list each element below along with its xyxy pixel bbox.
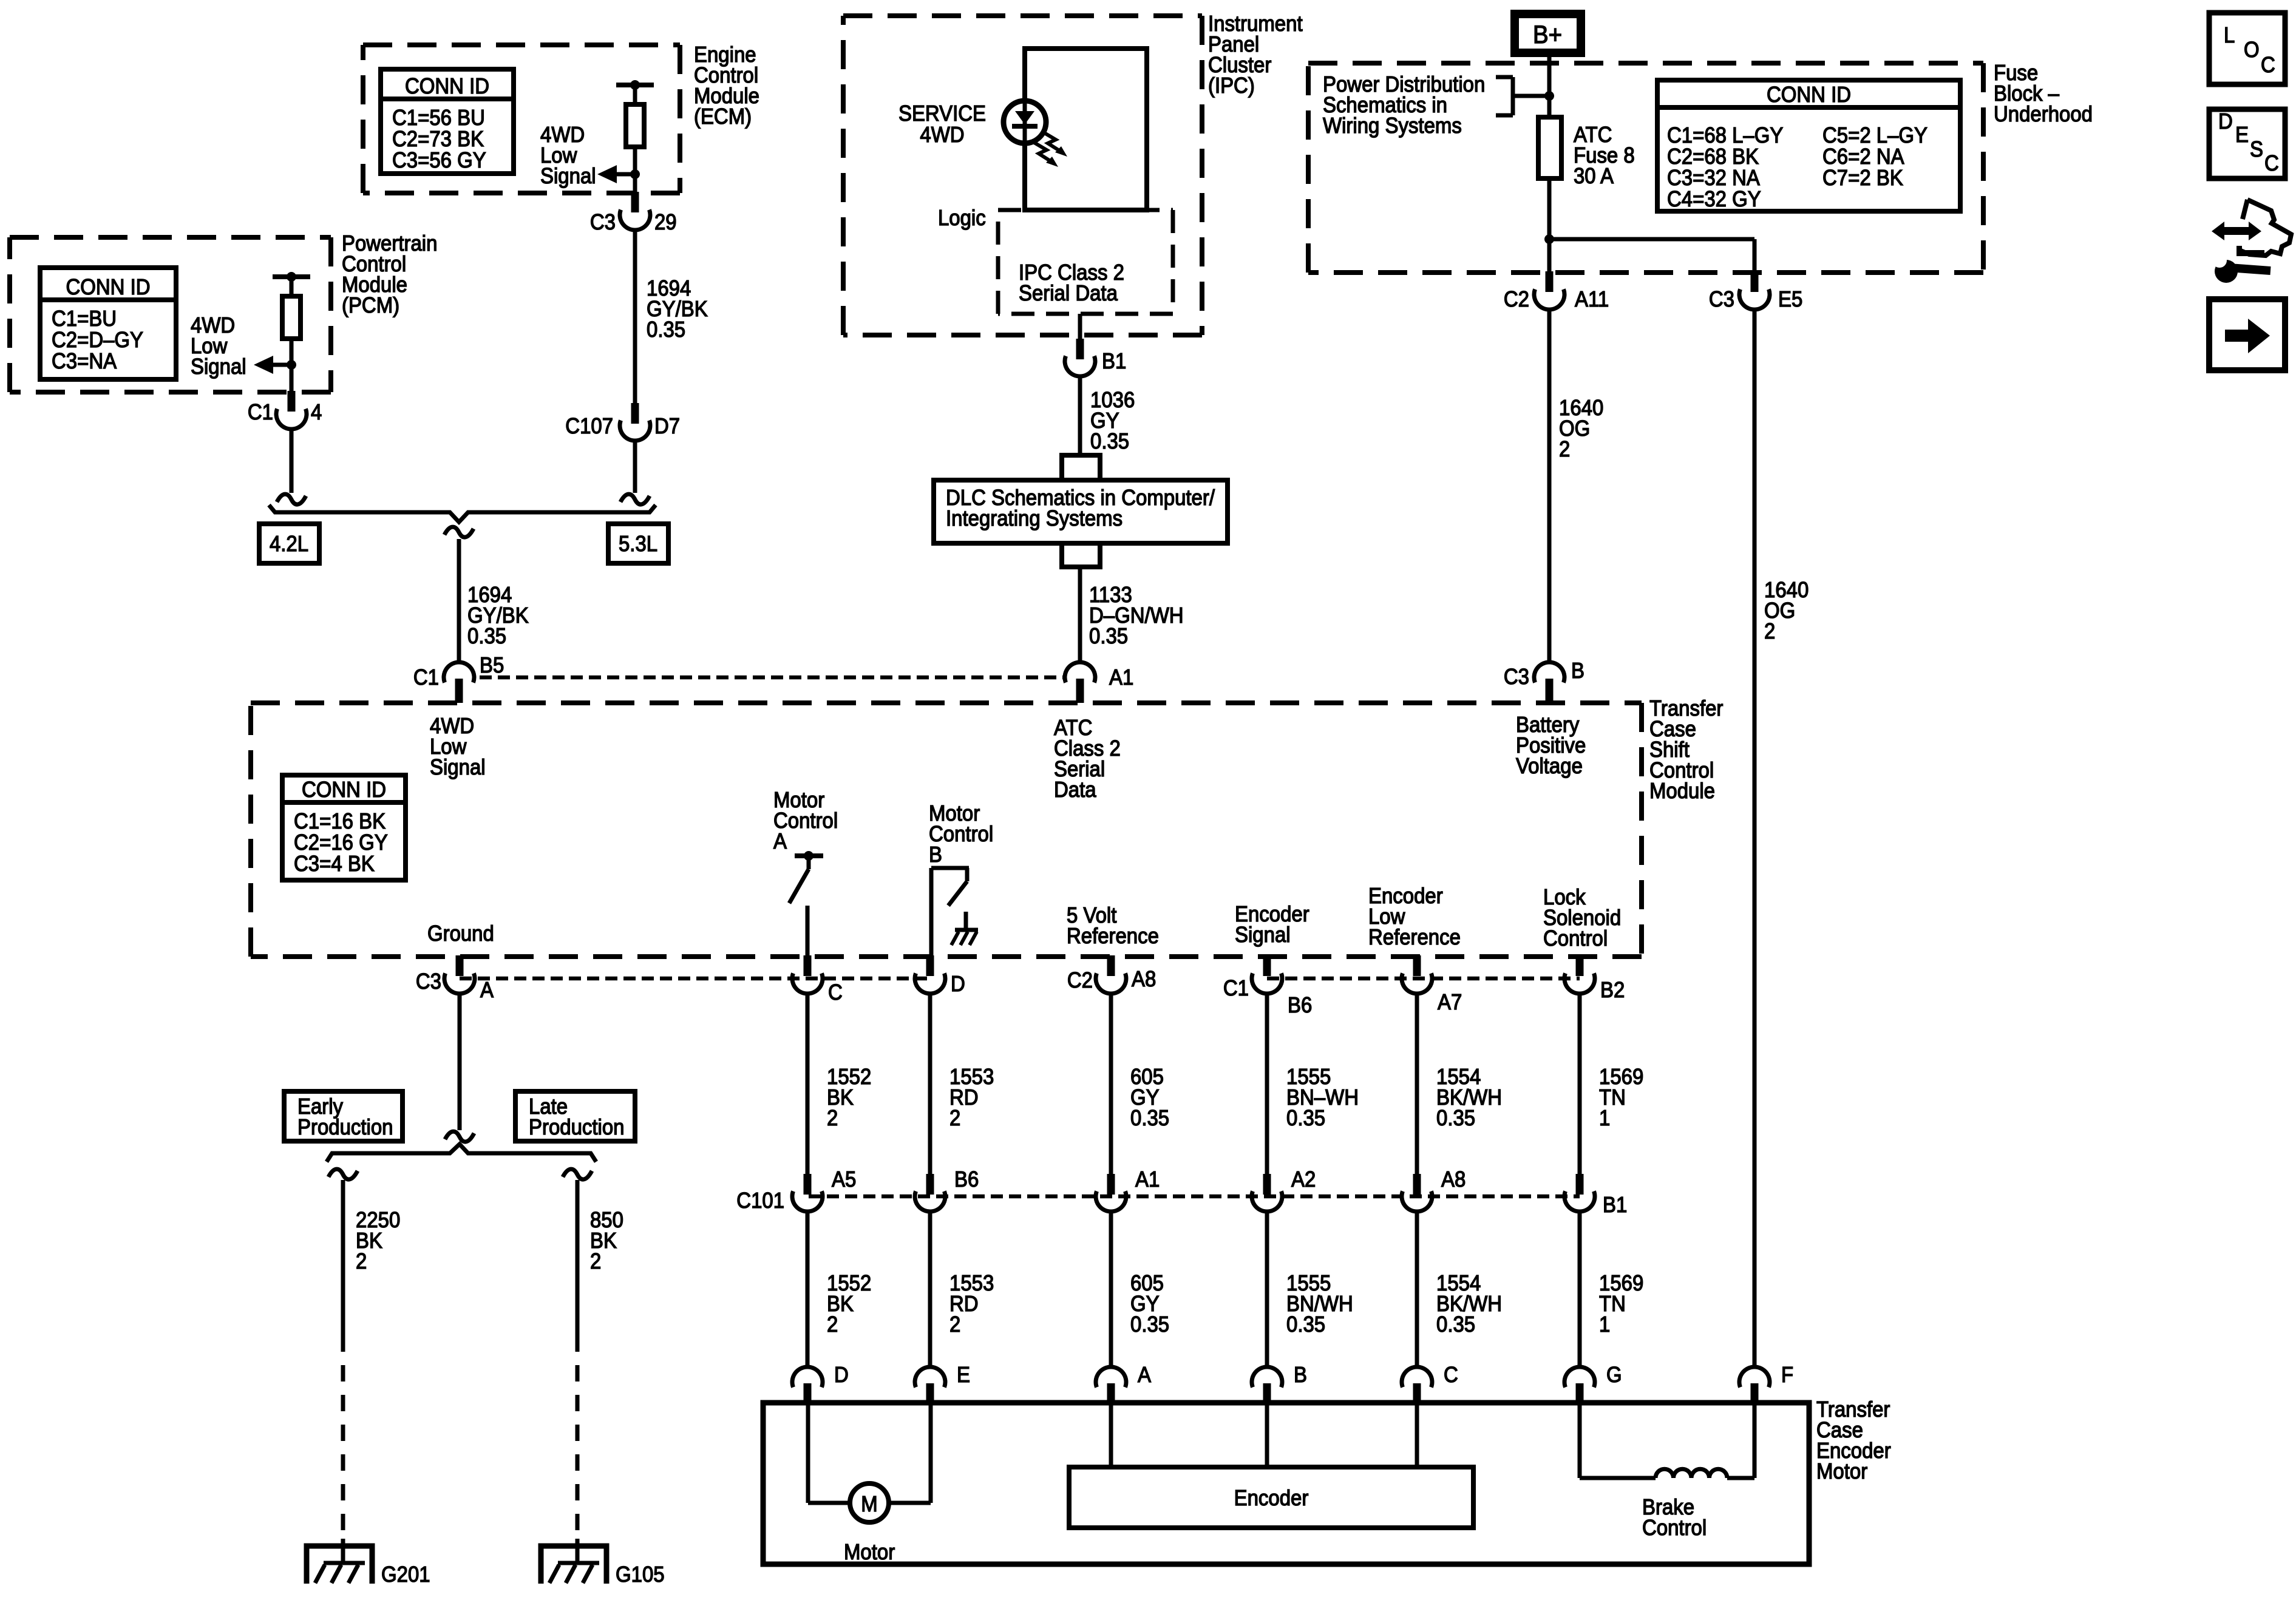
label wire 1133 D-GN/WH 0.35 (1089, 582, 1184, 648)
chassis ground (Motor Control B) (951, 930, 978, 945)
label Motor (844, 1539, 895, 1564)
arrow 4WD Low Signal (PCM) (254, 356, 296, 374)
label wire 1569 TN 1 upper (1599, 1064, 1643, 1130)
svg-text:C3=4 BK: C3=4 BK (294, 851, 375, 876)
brace split Early/Late (327, 1144, 596, 1162)
wire 1569 lower (1578, 1211, 1582, 1367)
svg-text:Integrating Systems: Integrating Systems (946, 506, 1123, 531)
switch Motor Control A (789, 851, 823, 957)
label wire 1640 OG 2 (E5) (1764, 577, 1809, 643)
wire 1640 A11 to B (1547, 309, 1552, 662)
svg-text:Logic: Logic (938, 205, 986, 230)
node Power Distribution tap (1496, 77, 1554, 115)
label wire 850 BK 2 (590, 1207, 623, 1273)
svg-text:C7=2 BK: C7=2 BK (1822, 165, 1903, 190)
connector C101 pin A1 (1096, 1167, 1160, 1212)
wire 1554 lower (1415, 1211, 1419, 1367)
label Brake Control (1642, 1494, 1707, 1540)
wire 2250 solid (328, 1169, 358, 1335)
icon DESC box (2209, 109, 2285, 178)
wire B+ to fuse (1547, 55, 1552, 118)
svg-text:C3=56 GY: C3=56 GY (392, 147, 486, 172)
connector pin A1 (1065, 662, 1133, 703)
svg-text:C1: C1 (413, 665, 439, 690)
fuse ATC Fuse 8 30A (1538, 117, 1561, 178)
switch Motor Control B (931, 868, 969, 957)
svg-text:B: B (1294, 1362, 1307, 1387)
box Late Production (515, 1091, 635, 1141)
svg-text:2: 2 (827, 1105, 838, 1130)
label Logic (938, 205, 986, 230)
svg-text:Production: Production (529, 1114, 625, 1139)
svg-text:2: 2 (590, 1249, 601, 1273)
connector pin E (encoder motor) (915, 1362, 970, 1403)
svg-text:Underhood: Underhood (1994, 101, 2093, 126)
svg-text:4: 4 (311, 399, 322, 424)
svg-text:C: C (2264, 151, 2279, 175)
label wire 1694 GY/BK 0.35 lower (467, 582, 529, 648)
connector pin C (792, 955, 843, 1005)
svg-text:A5: A5 (832, 1167, 856, 1192)
svg-text:4.2L: 4.2L (270, 531, 308, 556)
svg-text:Wiring Systems: Wiring Systems (1323, 113, 1462, 138)
svg-text:0.35: 0.35 (1089, 623, 1128, 648)
svg-text:Data: Data (1054, 777, 1096, 802)
table CONN ID (TCSCM) (282, 775, 406, 880)
power node B+ (1515, 14, 1581, 53)
svg-text:Control: Control (1543, 926, 1608, 951)
svg-text:B6: B6 (1288, 992, 1312, 1017)
svg-text:0.35: 0.35 (1436, 1105, 1475, 1130)
svg-text:C2: C2 (1067, 968, 1093, 992)
svg-text:A7: A7 (1438, 989, 1462, 1014)
box IPC lamp circuit (1025, 49, 1147, 210)
wire 1555 upper (1265, 993, 1269, 1174)
label wire 1036 GY 0.35 (1090, 387, 1135, 453)
svg-text:1: 1 (1599, 1105, 1610, 1130)
wire C1-4 down (277, 429, 306, 504)
svg-text:D: D (951, 971, 965, 996)
svg-text:O: O (2244, 37, 2260, 62)
connector C101 pin A5 (792, 1167, 856, 1212)
svg-text:CONN ID: CONN ID (302, 777, 386, 802)
label Lock Solenoid Control (1543, 884, 1621, 951)
connector C1 pin B5 (413, 653, 504, 703)
table CONN ID (PCM) (40, 268, 176, 379)
label wire 1694 GY/BK 0.35 upper (647, 276, 708, 342)
connector C107 pin D7 (565, 403, 680, 441)
svg-text:B: B (929, 842, 942, 867)
svg-text:C3: C3 (590, 209, 616, 234)
svg-text:C3: C3 (416, 969, 441, 994)
wire branch to E5 (1549, 239, 1754, 273)
wire motor branch E (889, 1403, 931, 1503)
svg-text:2: 2 (827, 1312, 838, 1337)
wire encoder A (1109, 1403, 1113, 1467)
wire 1553 lower (928, 1211, 932, 1367)
wire 1553 upper (928, 993, 932, 1174)
connector pin B2 (1564, 955, 1625, 1002)
svg-text:Signal: Signal (1235, 922, 1291, 947)
arrow 4WD Low Signal (ECM) (597, 165, 640, 183)
svg-text:0.35: 0.35 (1436, 1312, 1475, 1337)
svg-text:M: M (861, 1491, 877, 1516)
label Motor Control A (773, 787, 838, 853)
label 5 Volt Reference (1067, 903, 1159, 948)
label 4WD Low Signal (TCSCM) (430, 713, 486, 779)
svg-text:A8: A8 (1441, 1167, 1466, 1192)
module box Powertrain Control Module (PCM) (10, 237, 331, 392)
svg-text:B6: B6 (954, 1167, 979, 1192)
connector pin C (encoder motor) (1402, 1362, 1458, 1403)
label wire 1555 BN–WH 0.35 upper (1286, 1064, 1359, 1130)
svg-text:E: E (957, 1362, 970, 1387)
wire brake right (1727, 1403, 1754, 1478)
label wire 1553 RD 2 lower (949, 1270, 994, 1337)
label Encoder Signal (1235, 901, 1309, 947)
wire brake left (1580, 1403, 1656, 1478)
table CONN ID (fuse block) (1657, 80, 1960, 211)
connector pin A (encoder motor) (1096, 1362, 1151, 1403)
wire 605 lower (1109, 1211, 1113, 1367)
connector B1 (IPC) (1065, 339, 1126, 376)
junction dot fuse branch (1544, 234, 1554, 244)
bus dashed TCSCM bottom row right (1267, 977, 1580, 981)
crimp out of DLC box (1062, 543, 1100, 567)
svg-text:B5: B5 (480, 653, 504, 677)
connector C1 pin B6 (1223, 955, 1312, 1017)
label wire 1553 RD 2 upper (949, 1064, 994, 1130)
svg-text:0.35: 0.35 (1130, 1105, 1169, 1130)
svg-text:A11: A11 (1575, 286, 1609, 311)
svg-text:C3=NA: C3=NA (52, 348, 117, 373)
label wire 1554 BK/WH 0.35 upper (1436, 1064, 1502, 1130)
label ATC Class 2 Serial Data (1054, 715, 1121, 802)
wire 1552 upper (806, 993, 810, 1174)
svg-text:Serial Data: Serial Data (1019, 280, 1118, 305)
label Power Distribution Schematics (1323, 72, 1485, 138)
icon arrow box (2209, 299, 2285, 370)
connector C3 pin E5 (1709, 271, 1802, 311)
connector C101 pin B6 (915, 1167, 979, 1212)
label wire 1552 BK 2 upper (827, 1064, 871, 1130)
label wire 1569 TN 1 lower (1599, 1270, 1643, 1337)
LED indicator SERVICE 4WD (1004, 101, 1046, 143)
svg-text:Signal: Signal (430, 754, 486, 779)
svg-text:F: F (1781, 1362, 1793, 1387)
wire ground from pin A (445, 993, 474, 1142)
svg-text:0.35: 0.35 (467, 623, 506, 648)
connector pin D (encoder motor) (792, 1362, 849, 1403)
connector C2 pin A8 (1067, 955, 1156, 994)
svg-text:C1: C1 (1223, 975, 1249, 1000)
svg-text:2: 2 (949, 1105, 960, 1130)
label wire 2250 BK 2 (356, 1207, 400, 1273)
svg-text:0.35: 0.35 (1130, 1312, 1169, 1337)
svg-text:A1: A1 (1135, 1167, 1160, 1192)
svg-text:Encoder: Encoder (1234, 1485, 1309, 1510)
label 4WD Low Signal (PCM) (191, 313, 246, 379)
svg-text:A8: A8 (1132, 966, 1156, 991)
svg-text:CONN ID: CONN ID (66, 274, 150, 299)
connector C3 pin A (ground) (416, 955, 494, 1002)
wire 2250 dashed (341, 1335, 345, 1542)
wire PCM resistor to edge (290, 339, 294, 391)
wire 1640 E5 to F (1753, 309, 1757, 1367)
wire 605 upper (1109, 993, 1113, 1174)
svg-text:2: 2 (949, 1312, 960, 1337)
connector pin D (915, 955, 965, 996)
bus dashed B5 to A1 (480, 676, 1064, 680)
motor M (850, 1483, 889, 1522)
label wire 1640 OG 2 (A11) (1559, 395, 1603, 461)
svg-text:(PCM): (PCM) (342, 293, 399, 317)
label wire 605 GY 0.35 upper (1130, 1064, 1169, 1130)
wire encoder C (1415, 1403, 1419, 1467)
box DLC Schematics (934, 480, 1228, 543)
wire 1552 lower (806, 1211, 810, 1367)
bus dashed TCSCM bottom row left (460, 977, 930, 981)
svg-text:B1: B1 (1102, 348, 1126, 373)
icon vehicle hood outline (2237, 200, 2291, 256)
label Ground (427, 921, 494, 946)
svg-text:Module: Module (1649, 778, 1715, 803)
svg-text:Reference: Reference (1368, 924, 1461, 949)
wire below C107 (620, 440, 650, 504)
svg-text:0.35: 0.35 (1286, 1105, 1325, 1130)
module box Engine Control Module (ECM) (363, 45, 680, 193)
crimp into DLC box (1062, 455, 1100, 480)
svg-text:C: C (2261, 52, 2275, 77)
svg-text:E5: E5 (1778, 286, 1802, 311)
svg-text:Voltage: Voltage (1516, 753, 1583, 778)
connector pin B (encoder motor) (1252, 1362, 1307, 1403)
svg-text:C: C (1444, 1362, 1458, 1387)
svg-text:E: E (2235, 122, 2249, 147)
wire 1569 upper (1578, 993, 1582, 1174)
wire ECM resistor to edge (633, 147, 637, 192)
connector C1 pin 4 (PCM) (248, 391, 322, 429)
svg-text:C1: C1 (248, 399, 273, 424)
svg-text:C3: C3 (1709, 286, 1734, 311)
svg-text:5.3L: 5.3L (619, 531, 657, 556)
label Encoder Low Reference (1368, 883, 1461, 949)
svg-text:2: 2 (1764, 619, 1775, 643)
table CONN ID (ECM) (381, 69, 514, 174)
wire fuse to edge (1547, 178, 1552, 273)
connector pin F (encoder motor) (1739, 1362, 1793, 1403)
icon double arrow (2212, 222, 2261, 240)
svg-text:(IPC): (IPC) (1208, 73, 1255, 98)
label C101 (736, 1188, 784, 1213)
wire IPC to B1 (1078, 314, 1082, 340)
module box Transfer Case Encoder Motor (763, 1403, 1809, 1564)
box Encoder (1069, 1467, 1473, 1528)
svg-text:B+: B+ (1533, 20, 1562, 49)
connector C3 pin B (1504, 658, 1584, 703)
svg-text:D7: D7 (654, 413, 680, 438)
brace merge 4.2L/5.3L (269, 505, 656, 537)
LED light rays (1033, 132, 1067, 167)
svg-text:A: A (773, 829, 787, 853)
svg-text:G: G (1606, 1362, 1622, 1387)
module box Instrument Panel Cluster (IPC) (843, 16, 1202, 335)
label Battery Positive Voltage (1516, 712, 1586, 778)
connector C2 pin A11 (1504, 271, 1609, 311)
svg-text:C2: C2 (1504, 286, 1529, 311)
svg-text:1: 1 (1599, 1312, 1610, 1337)
svg-text:4WD: 4WD (920, 122, 964, 147)
label wire 1555 BN/WH 0.35 lower (1286, 1270, 1353, 1337)
connector C101 pin A2 (1252, 1167, 1316, 1212)
svg-text:D: D (834, 1362, 849, 1387)
svg-text:(ECM): (ECM) (694, 104, 752, 129)
label PCM name (342, 231, 437, 317)
svg-text:C4=32 GY: C4=32 GY (1667, 186, 1761, 211)
svg-text:Signal: Signal (540, 163, 596, 188)
connector C3 pin 29 (ECM) (590, 192, 677, 234)
label Transfer Case Encoder Motor (1816, 1397, 1891, 1483)
svg-text:Motor: Motor (844, 1539, 895, 1564)
label Motor Control B (929, 801, 993, 867)
bus dashed C101 row (809, 1195, 1580, 1199)
wire 1133 (1078, 567, 1082, 662)
label TCSCM name (1649, 696, 1723, 803)
connector C101 pin B1 (1564, 1174, 1627, 1217)
wire 1694 lower (457, 539, 461, 662)
box IPC Class 2 Serial Data (998, 210, 1173, 314)
svg-text:Control: Control (1642, 1515, 1707, 1540)
resistor R-ECM pull-up (616, 80, 654, 147)
connector C101 pin A8 (1402, 1167, 1466, 1212)
icon LOC box (2209, 13, 2285, 84)
module box Transfer Case Shift Control Module (251, 703, 1642, 957)
label Fuse Block name (1994, 60, 2093, 126)
svg-text:C107: C107 (565, 413, 613, 438)
wire encoder B (1265, 1403, 1269, 1467)
svg-text:C3: C3 (1504, 664, 1529, 689)
label wire 605 GY 0.35 lower (1130, 1270, 1169, 1337)
svg-text:30 A: 30 A (1574, 163, 1614, 188)
svg-text:L: L (2224, 22, 2235, 47)
svg-text:B2: B2 (1600, 977, 1625, 1002)
inductor Brake Control (1656, 1469, 1727, 1478)
svg-text:29: 29 (654, 209, 677, 234)
svg-text:G105: G105 (616, 1562, 665, 1587)
resistor R-PCM pull-up (273, 272, 310, 339)
svg-text:Ground: Ground (427, 921, 494, 946)
ground G201 (307, 1539, 430, 1587)
box Early Production (284, 1091, 402, 1141)
svg-text:Signal: Signal (191, 354, 246, 379)
svg-text:Reference: Reference (1067, 923, 1159, 948)
label 4WD Low Signal (ECM) (540, 122, 596, 188)
label ATC Fuse 8 30 A (1574, 122, 1635, 188)
label wire 1552 BK 2 lower (827, 1270, 871, 1337)
svg-text:CONN ID: CONN ID (405, 73, 489, 98)
svg-text:A1: A1 (1109, 665, 1133, 690)
svg-text:B1: B1 (1603, 1192, 1627, 1217)
wire 1036 (1078, 376, 1082, 454)
svg-text:C: C (828, 980, 843, 1005)
ground G105 (541, 1539, 665, 1587)
box 4.2L (259, 524, 319, 563)
svg-text:A2: A2 (1291, 1167, 1316, 1192)
module box Fuse Block - Underhood (1308, 63, 1983, 273)
wire 1555 lower (1265, 1211, 1269, 1367)
svg-text:B: B (1571, 658, 1584, 683)
svg-text:Motor: Motor (1816, 1459, 1867, 1483)
label wire 1554 BK/WH 0.35 lower (1436, 1270, 1502, 1337)
label IPC name (1208, 11, 1303, 98)
svg-text:C101: C101 (736, 1188, 784, 1213)
icon wrench (2212, 253, 2271, 283)
box 5.3L (608, 524, 668, 563)
svg-text:S: S (2250, 137, 2263, 161)
svg-text:Production: Production (297, 1114, 393, 1139)
wire 1694 upper (633, 229, 637, 403)
svg-text:0.35: 0.35 (647, 317, 685, 342)
svg-text:0.35: 0.35 (1286, 1312, 1325, 1337)
svg-text:D: D (2218, 109, 2233, 134)
svg-text:2: 2 (1559, 436, 1570, 461)
svg-text:G201: G201 (381, 1562, 430, 1587)
svg-text:CONN ID: CONN ID (1767, 82, 1851, 107)
svg-text:2: 2 (356, 1249, 367, 1273)
wire 850 dashed (576, 1335, 580, 1542)
wire 1554 upper (1415, 993, 1419, 1174)
wire 850 solid (563, 1169, 592, 1335)
connector pin A7 (1402, 955, 1462, 1014)
connector pin G (encoder motor) (1564, 1362, 1622, 1403)
svg-text:A: A (480, 977, 494, 1002)
svg-text:A: A (1138, 1362, 1151, 1387)
wire motor branch D (808, 1403, 850, 1503)
label ECM name (694, 42, 759, 129)
label SERVICE 4WD (898, 101, 986, 147)
svg-text:0.35: 0.35 (1090, 429, 1129, 453)
